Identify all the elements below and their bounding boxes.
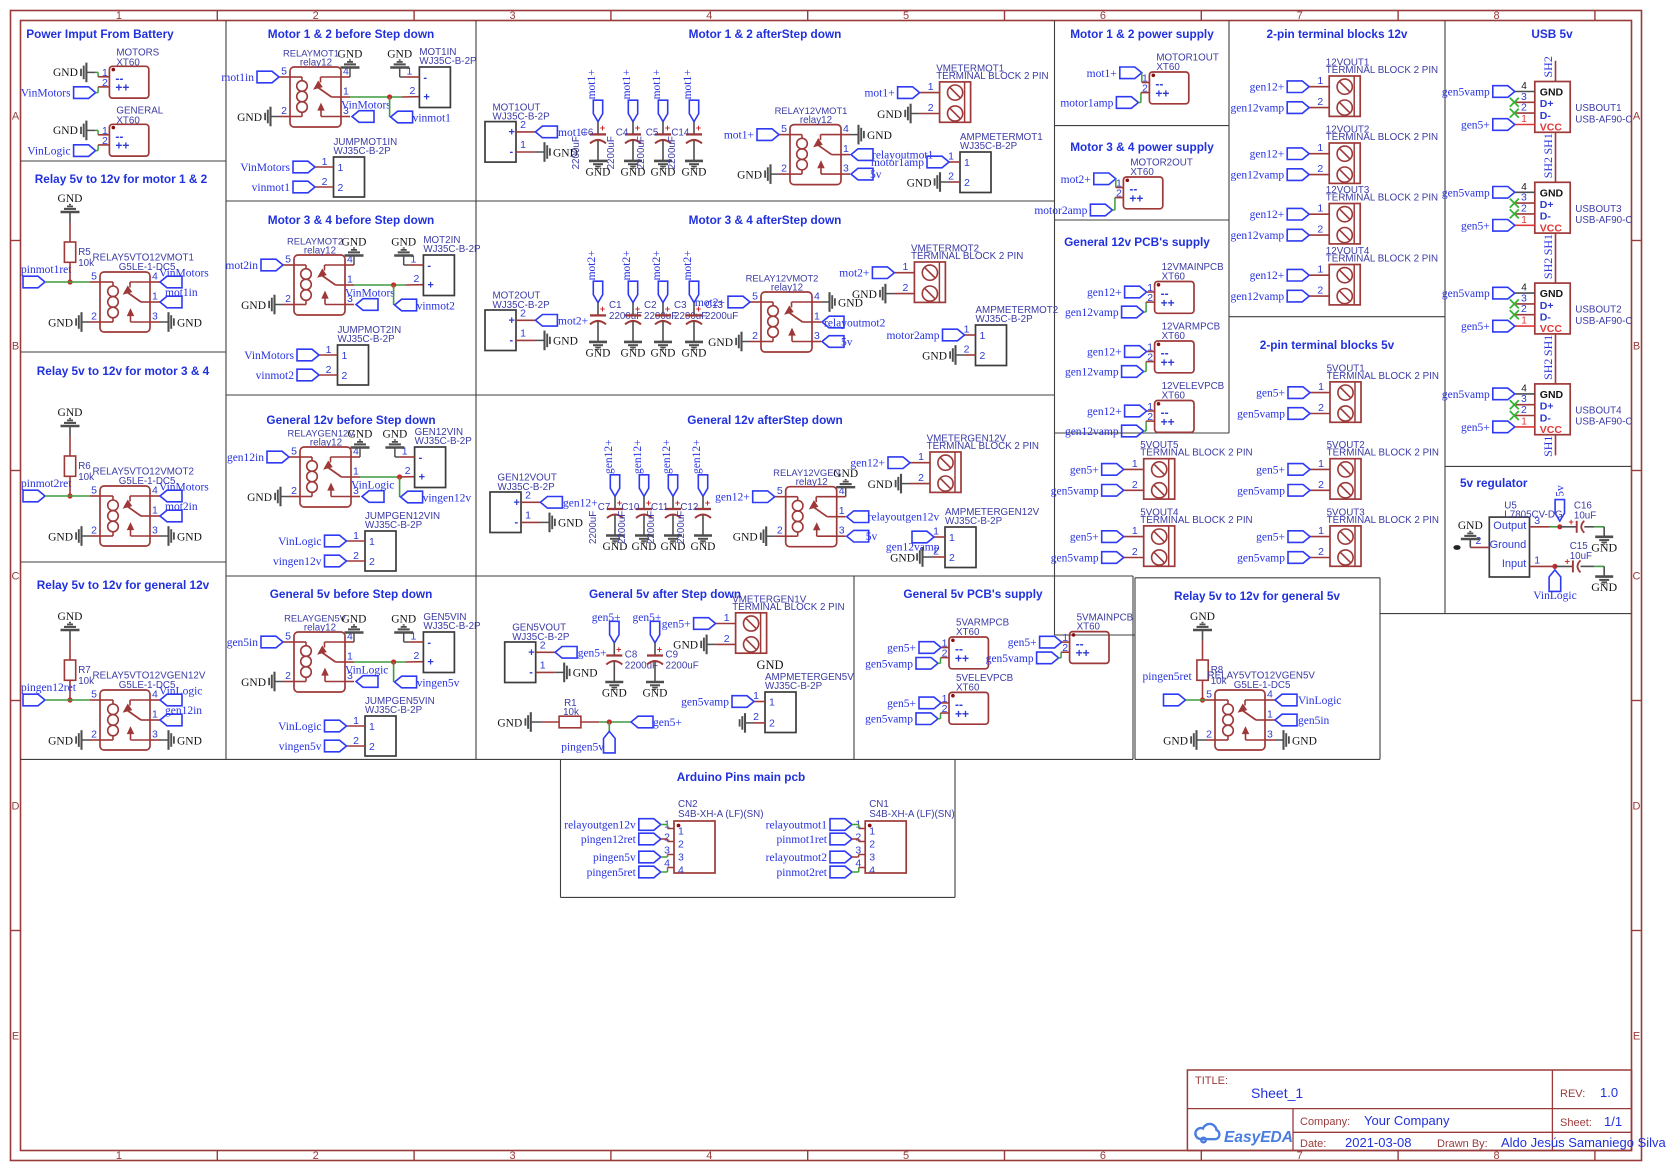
svg-text:+: + (665, 304, 670, 314)
svg-text:+: + (616, 644, 621, 654)
svg-text:-: - (515, 517, 519, 529)
svg-text:5: 5 (781, 123, 787, 135)
svg-text:2: 2 (1132, 479, 1138, 491)
svg-text:gen5vamp: gen5vamp (865, 658, 913, 670)
svg-text:GND: GND (348, 429, 373, 441)
svg-text:C8: C8 (625, 650, 638, 661)
svg-text:1: 1 (342, 350, 348, 362)
svg-text:relay12: relay12 (304, 623, 336, 634)
svg-text:Sheet_1: Sheet_1 (1251, 1085, 1303, 1101)
svg-text:D+: D+ (1540, 98, 1554, 110)
svg-text:C6: C6 (581, 127, 594, 138)
svg-text:gen12+: gen12+ (850, 458, 885, 470)
svg-text:1: 1 (347, 274, 353, 286)
svg-text:B: B (1633, 341, 1640, 353)
svg-text:2: 2 (291, 485, 297, 497)
svg-text:1: 1 (1521, 316, 1527, 327)
svg-text:General 12v PCB's supply: General 12v PCB's supply (1064, 235, 1210, 249)
svg-text:mot2+: mot2+ (682, 250, 694, 280)
svg-text:7: 7 (1297, 10, 1303, 22)
svg-text:REV:: REV: (1560, 1088, 1585, 1100)
svg-text:VinLogic: VinLogic (278, 536, 321, 548)
svg-text:Ground: Ground (1490, 539, 1527, 551)
svg-text:vingen5v: vingen5v (279, 741, 322, 753)
svg-text:GND: GND (387, 49, 412, 61)
svg-text:C4: C4 (616, 127, 629, 138)
svg-text:SH2: SH2 (1541, 157, 1555, 178)
svg-text:+: + (635, 123, 640, 133)
svg-text:2-pin terminal blocks 12v: 2-pin terminal blocks 12v (1267, 27, 1408, 41)
svg-text:gen12+: gen12+ (1250, 270, 1285, 282)
svg-text:2200uF: 2200uF (588, 511, 599, 544)
svg-text:relayoutgen12v: relayoutgen12v (564, 820, 636, 832)
svg-text:E: E (12, 1031, 19, 1043)
svg-text:+: + (665, 123, 670, 133)
svg-text:C: C (1633, 571, 1641, 583)
svg-text:TERMINAL BLOCK 2 PIN: TERMINAL BLOCK 2 PIN (1327, 371, 1439, 382)
svg-text:mot2+: mot2+ (1061, 174, 1091, 186)
svg-text:XT60: XT60 (116, 58, 140, 69)
svg-text:mot1in: mot1in (165, 287, 198, 299)
svg-text:GND: GND (58, 193, 83, 205)
svg-text:Motor 3 & 4 afterStep down: Motor 3 & 4 afterStep down (689, 213, 842, 227)
svg-text:C2: C2 (644, 300, 657, 311)
svg-text:1: 1 (1132, 525, 1138, 537)
svg-text:GND: GND (1540, 187, 1564, 199)
svg-text:1: 1 (928, 81, 934, 93)
svg-text:2: 2 (1206, 729, 1212, 741)
svg-text:GND: GND (877, 109, 902, 121)
svg-text:2200uF: 2200uF (606, 136, 617, 169)
svg-text:GND: GND (177, 531, 202, 543)
svg-text:mot1+: mot1+ (651, 69, 663, 99)
svg-text:SH2: SH2 (1541, 359, 1555, 380)
svg-text:General 5v before Step down: General 5v before Step down (270, 587, 433, 601)
svg-text:6: 6 (1100, 1150, 1106, 1162)
svg-text:USB-AF90-C: USB-AF90-C (1575, 114, 1632, 125)
svg-text:R5: R5 (78, 247, 91, 258)
svg-text:vinmot2: vinmot2 (256, 370, 295, 382)
svg-text:gen5vamp: gen5vamp (1442, 87, 1490, 99)
svg-text:D-: D- (1540, 412, 1552, 424)
svg-text:2200uF: 2200uF (571, 136, 582, 169)
svg-text:5: 5 (903, 1150, 909, 1162)
svg-text:gen5+: gen5+ (1256, 464, 1285, 476)
svg-text:gen5+: gen5+ (578, 647, 607, 659)
svg-text:2: 2 (414, 650, 420, 662)
svg-text:3: 3 (152, 525, 158, 537)
svg-text:3: 3 (814, 330, 820, 342)
svg-text:-: - (423, 72, 427, 84)
svg-text:mot1+: mot1+ (1087, 68, 1117, 80)
svg-text:vinmot1: vinmot1 (413, 113, 452, 125)
svg-text:1: 1 (980, 330, 986, 342)
svg-text:+: + (528, 647, 534, 659)
svg-text:GND: GND (907, 177, 932, 189)
svg-text:gen5in: gen5in (1298, 715, 1330, 727)
svg-text:gen12vamp: gen12vamp (1231, 230, 1285, 242)
svg-text:1: 1 (1267, 709, 1273, 721)
svg-text:S4B-XH-A (LF)(SN): S4B-XH-A (LF)(SN) (869, 809, 954, 820)
svg-text:2: 2 (964, 344, 970, 356)
svg-text:VinLogic: VinLogic (351, 480, 394, 492)
svg-text:WJ35C-B-2P: WJ35C-B-2P (338, 334, 396, 345)
svg-text:USB-AF90-C: USB-AF90-C (1575, 215, 1632, 226)
svg-text:2: 2 (1475, 535, 1481, 547)
svg-text:6: 6 (1100, 10, 1106, 22)
svg-text:8: 8 (1493, 10, 1499, 22)
svg-text:GND: GND (1190, 611, 1215, 623)
svg-text:vinmot1: vinmot1 (252, 182, 291, 194)
svg-text:mot1+: mot1+ (864, 88, 894, 100)
svg-text:General 5v after Step down: General 5v after Step down (589, 587, 741, 601)
svg-text:+: + (427, 657, 433, 669)
svg-text:2200uF: 2200uF (676, 511, 687, 544)
svg-text:2: 2 (281, 105, 287, 117)
svg-text:2: 2 (869, 839, 875, 851)
svg-text:gen5vamp: gen5vamp (1442, 187, 1490, 199)
svg-text:B: B (12, 341, 19, 353)
svg-text:gen12vamp: gen12vamp (1231, 291, 1285, 303)
svg-text:gen5in: gen5in (227, 637, 259, 649)
svg-text:TERMINAL BLOCK 2 PIN: TERMINAL BLOCK 2 PIN (1327, 515, 1439, 526)
svg-text:10uF: 10uF (1574, 511, 1596, 522)
svg-text:relayoutmot2: relayoutmot2 (766, 852, 828, 864)
svg-text:pinmot1ret: pinmot1ret (21, 264, 72, 276)
svg-text:1: 1 (903, 261, 909, 273)
svg-text:USB 5v: USB 5v (1531, 27, 1573, 41)
svg-text:gen5+: gen5+ (653, 717, 682, 729)
svg-text:SH1: SH1 (1541, 133, 1555, 154)
svg-text:gen5+: gen5+ (1256, 388, 1285, 400)
svg-text:2: 2 (285, 670, 291, 682)
svg-text:GND: GND (708, 337, 733, 349)
svg-text:-: - (510, 146, 514, 158)
svg-text:1: 1 (964, 157, 970, 169)
svg-text:gen5+: gen5+ (887, 698, 916, 710)
svg-text:GND: GND (53, 125, 78, 137)
svg-text:gen12in: gen12in (227, 452, 264, 464)
svg-text:2: 2 (928, 102, 934, 114)
svg-text:VinMotors: VinMotors (341, 100, 391, 112)
svg-text:4: 4 (678, 865, 684, 877)
svg-text:gen12+: gen12+ (632, 439, 644, 474)
svg-text:C7: C7 (598, 502, 611, 513)
svg-text:GND: GND (497, 717, 522, 729)
svg-text:Your Company: Your Company (1364, 1113, 1450, 1128)
svg-text:1: 1 (869, 826, 875, 838)
svg-text:gen5vamp: gen5vamp (1051, 485, 1099, 497)
svg-text:++: ++ (1155, 86, 1169, 100)
svg-text:WJ35C-B-2P: WJ35C-B-2P (365, 520, 423, 531)
svg-text:R6: R6 (78, 461, 91, 472)
svg-text:VinMotors: VinMotors (244, 350, 294, 362)
svg-text:2: 2 (678, 839, 684, 851)
svg-text:GND: GND (1292, 735, 1317, 747)
svg-text:GND: GND (391, 614, 416, 626)
svg-text:5: 5 (1206, 689, 1212, 701)
svg-text:D-: D- (1540, 110, 1552, 122)
svg-text:WJ35C-B-2P: WJ35C-B-2P (415, 436, 473, 447)
svg-text:2: 2 (369, 556, 375, 568)
svg-text:VinLogic: VinLogic (159, 686, 202, 698)
svg-text:C5: C5 (646, 127, 659, 138)
svg-text:gen12vamp: gen12vamp (1065, 307, 1119, 319)
svg-text:2200uF: 2200uF (636, 136, 647, 169)
svg-text:2: 2 (91, 525, 97, 537)
svg-text:2: 2 (948, 171, 954, 183)
svg-text:WJ35C-B-2P: WJ35C-B-2P (365, 705, 423, 716)
svg-text:gen12+: gen12+ (715, 492, 750, 504)
svg-text:1: 1 (1318, 381, 1324, 393)
svg-text:mot1+: mot1+ (586, 69, 598, 99)
svg-text:mot2+: mot2+ (558, 315, 588, 327)
svg-text:1: 1 (1521, 114, 1527, 125)
svg-text:General 12v afterStep down: General 12v afterStep down (687, 413, 842, 427)
svg-text:5v: 5v (841, 337, 853, 349)
svg-text:gen12vamp: gen12vamp (1065, 426, 1119, 438)
svg-text:5v: 5v (1555, 485, 1567, 497)
svg-text:gen12+: gen12+ (603, 439, 615, 474)
svg-text:GND: GND (673, 640, 698, 652)
svg-text:3: 3 (843, 163, 849, 175)
svg-text:5: 5 (903, 10, 909, 22)
svg-text:3: 3 (1267, 729, 1273, 741)
svg-text:motor1amp: motor1amp (871, 157, 924, 169)
svg-text:2: 2 (520, 307, 526, 319)
svg-text:D: D (1633, 801, 1641, 813)
svg-text:gen5+: gen5+ (1256, 532, 1285, 544)
svg-text:USBOUT2: USBOUT2 (1575, 305, 1621, 316)
svg-text:relayoutgen12v: relayoutgen12v (868, 512, 940, 524)
svg-text:GND: GND (48, 735, 73, 747)
svg-text:TITLE:: TITLE: (1195, 1075, 1228, 1087)
svg-text:++: ++ (1161, 355, 1175, 369)
svg-text:-: - (529, 667, 533, 679)
svg-text:2: 2 (777, 525, 783, 537)
svg-text:1: 1 (724, 612, 730, 624)
svg-text:+: + (509, 127, 515, 139)
svg-text:1: 1 (520, 139, 526, 151)
svg-text:+: + (509, 315, 515, 327)
svg-text:VinMotors: VinMotors (21, 88, 71, 100)
svg-text:mot1in: mot1in (221, 72, 254, 84)
svg-text:2: 2 (414, 273, 420, 285)
svg-text:VCC: VCC (1540, 222, 1563, 234)
svg-text:GND: GND (756, 658, 783, 672)
svg-text:gen5+: gen5+ (1461, 120, 1490, 132)
svg-text:motor2amp: motor2amp (886, 330, 939, 342)
svg-text:GND: GND (1591, 540, 1617, 554)
svg-text:gen5+: gen5+ (662, 619, 691, 631)
svg-text:A: A (12, 111, 20, 123)
svg-text:2: 2 (1318, 479, 1324, 491)
svg-text:VinMotors: VinMotors (159, 268, 209, 280)
svg-text:Output: Output (1493, 520, 1526, 532)
svg-text:SH1: SH1 (1541, 436, 1555, 457)
svg-text:VinLogic: VinLogic (27, 146, 70, 158)
svg-text:1: 1 (116, 10, 122, 22)
svg-text:Input: Input (1502, 558, 1526, 570)
svg-text:C1: C1 (609, 300, 622, 311)
svg-text:EasyEDA: EasyEDA (1224, 1129, 1293, 1146)
svg-text:relay12: relay12 (771, 283, 803, 294)
svg-text:4: 4 (869, 865, 875, 877)
svg-text:GND: GND (342, 614, 367, 626)
svg-text:gen5+: gen5+ (592, 612, 621, 624)
svg-text:gen12+: gen12+ (1250, 209, 1285, 221)
svg-text:USB-AF90-C: USB-AF90-C (1575, 316, 1632, 327)
svg-text:GND: GND (922, 350, 947, 362)
svg-text:2: 2 (405, 465, 411, 477)
svg-text:pingen12ret: pingen12ret (21, 682, 77, 694)
svg-text:4: 4 (706, 10, 712, 22)
svg-text:GND: GND (621, 347, 646, 359)
svg-text:GND: GND (391, 237, 416, 249)
svg-text:++: ++ (115, 139, 129, 153)
svg-text:USBOUT3: USBOUT3 (1575, 204, 1622, 215)
svg-text:GND: GND (1540, 87, 1564, 99)
svg-text:2: 2 (1521, 102, 1527, 114)
svg-text:2: 2 (980, 350, 986, 362)
svg-text:2: 2 (903, 282, 909, 294)
svg-text:1: 1 (369, 536, 375, 548)
svg-text:2: 2 (1317, 224, 1323, 236)
svg-text:relay12: relay12 (300, 58, 332, 69)
svg-text:gen5+: gen5+ (1461, 422, 1490, 434)
svg-text:5: 5 (285, 631, 291, 643)
svg-text:gen5vamp: gen5vamp (865, 714, 913, 726)
svg-text:1: 1 (753, 690, 759, 702)
svg-text:mot2+: mot2+ (839, 268, 869, 280)
svg-text:+: + (600, 304, 605, 314)
svg-text:Arduino Pins main pcb: Arduino Pins main pcb (677, 770, 805, 784)
svg-text:GND: GND (58, 407, 83, 419)
svg-text:USBOUT1: USBOUT1 (1575, 103, 1621, 114)
svg-text:1: 1 (769, 697, 775, 709)
svg-text:2: 2 (91, 311, 97, 323)
svg-text:5: 5 (285, 254, 291, 266)
svg-text:2: 2 (91, 729, 97, 741)
svg-text:gen5+: gen5+ (1070, 464, 1099, 476)
svg-text:1: 1 (1317, 264, 1323, 276)
svg-text:1: 1 (540, 659, 546, 671)
svg-text:GND: GND (247, 492, 272, 504)
svg-text:GND: GND (651, 347, 676, 359)
svg-text:C: C (12, 571, 20, 583)
svg-text:mot2+: mot2+ (695, 297, 725, 309)
svg-text:gen5+: gen5+ (1461, 321, 1490, 333)
svg-text:VCC: VCC (1540, 323, 1563, 335)
svg-text:gen5vamp: gen5vamp (681, 697, 729, 709)
svg-text:2: 2 (964, 177, 970, 189)
svg-text:1: 1 (678, 826, 684, 838)
svg-text:1: 1 (1132, 458, 1138, 470)
svg-text:GND: GND (868, 479, 893, 491)
svg-text:2: 2 (410, 85, 416, 97)
svg-text:3: 3 (509, 10, 515, 22)
svg-text:2200uF: 2200uF (617, 511, 628, 544)
svg-text:WJ35C-B-2P: WJ35C-B-2P (423, 621, 481, 632)
svg-text:+: + (423, 92, 429, 104)
svg-text:2-pin terminal blocks 5v: 2-pin terminal blocks 5v (1260, 338, 1395, 352)
svg-text:VinMotors: VinMotors (345, 288, 395, 300)
svg-text:gen5vamp: gen5vamp (1442, 288, 1490, 300)
svg-text:+: + (427, 280, 433, 292)
svg-text:2200uF: 2200uF (646, 511, 657, 544)
svg-text:Power Imput From Battery: Power Imput From Battery (26, 27, 174, 41)
svg-text:relay12: relay12 (800, 115, 832, 126)
svg-text:WJ35C-B-2P: WJ35C-B-2P (960, 141, 1018, 152)
svg-text:gen5vamp: gen5vamp (1442, 389, 1490, 401)
svg-text:TERMINAL BLOCK 2 PIN: TERMINAL BLOCK 2 PIN (732, 602, 844, 613)
svg-text:TERMINAL BLOCK 2 PIN: TERMINAL BLOCK 2 PIN (1326, 132, 1438, 143)
svg-text:1: 1 (814, 311, 820, 323)
svg-text:2: 2 (313, 1150, 319, 1162)
svg-text:Motor 1 & 2 before Step down: Motor 1 & 2 before Step down (268, 27, 434, 41)
svg-text:GND: GND (48, 317, 73, 329)
svg-text:GND: GND (833, 468, 858, 480)
svg-text:10k: 10k (563, 707, 579, 718)
svg-text:3: 3 (509, 1150, 515, 1162)
svg-text:2: 2 (369, 741, 375, 753)
svg-text:gen12+: gen12+ (563, 497, 598, 509)
svg-text:1: 1 (933, 526, 939, 538)
svg-text:1: 1 (347, 651, 353, 663)
svg-text:2: 2 (753, 711, 759, 723)
svg-text:2: 2 (769, 718, 775, 730)
svg-text:1: 1 (839, 505, 845, 517)
svg-text:mot2in: mot2in (165, 501, 198, 513)
svg-text:GND: GND (1540, 389, 1564, 401)
svg-text:pingen12ret: pingen12ret (581, 834, 637, 846)
svg-text:1: 1 (353, 466, 359, 478)
svg-text:GND: GND (602, 688, 627, 700)
svg-text:2: 2 (918, 472, 924, 484)
svg-text:relay12: relay12 (304, 246, 336, 257)
svg-text:5: 5 (91, 271, 97, 283)
svg-text:GND: GND (852, 289, 877, 301)
svg-text:++: ++ (115, 81, 129, 95)
svg-text:++: ++ (1129, 191, 1143, 205)
svg-text:A: A (1633, 111, 1641, 123)
svg-text:pinmot2ret: pinmot2ret (777, 867, 828, 879)
svg-text:5: 5 (291, 446, 297, 458)
svg-text:1: 1 (525, 509, 531, 521)
svg-text:gen5+: gen5+ (1070, 532, 1099, 544)
svg-text:gen12+: gen12+ (1087, 347, 1122, 359)
svg-text:gen5+: gen5+ (1461, 220, 1490, 232)
svg-text:1: 1 (964, 324, 970, 336)
svg-text:mot1+: mot1+ (724, 130, 754, 142)
svg-text:5: 5 (752, 291, 758, 303)
svg-text:WJ35C-B-2P: WJ35C-B-2P (976, 314, 1034, 325)
svg-text:-: - (419, 452, 423, 464)
svg-text:General 12v before Step down: General 12v before Step down (266, 413, 435, 427)
svg-text:GND: GND (553, 336, 578, 348)
svg-text:2: 2 (1132, 546, 1138, 558)
svg-text:vinmot2: vinmot2 (417, 301, 456, 313)
svg-text:++: ++ (1076, 646, 1090, 660)
svg-text:General 5v PCB's supply: General 5v PCB's supply (903, 587, 1043, 601)
svg-text:USBOUT4: USBOUT4 (1575, 405, 1622, 416)
svg-text:4: 4 (706, 1150, 712, 1162)
svg-text:2: 2 (1521, 303, 1527, 315)
svg-text:TERMINAL BLOCK 2 PIN: TERMINAL BLOCK 2 PIN (1140, 448, 1252, 459)
svg-text:S4B-XH-A (LF)(SN): S4B-XH-A (LF)(SN) (678, 809, 763, 820)
svg-text:VinMotors: VinMotors (240, 162, 290, 174)
svg-text:+: + (514, 497, 520, 509)
